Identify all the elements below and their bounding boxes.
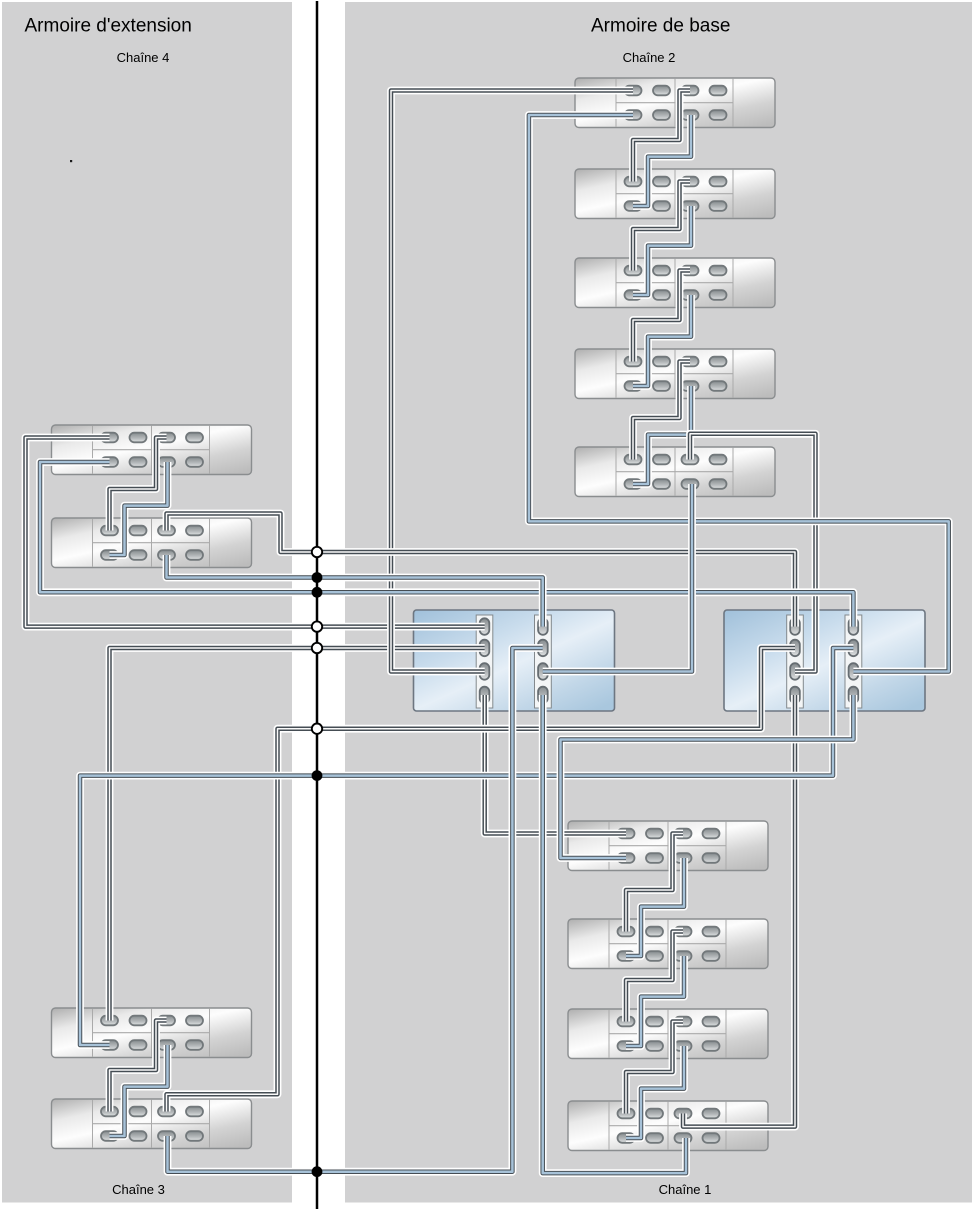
- wire dark link chain1 F-G top ports: [626, 932, 683, 1022]
- node crossing filled at y=577.5: [312, 572, 323, 583]
- svg-text:Chaîne 3: Chaîne 3: [112, 1182, 165, 1197]
- controller U2 (right): [724, 610, 925, 711]
- disk shelf chain1-H: [568, 1101, 768, 1151]
- wire U1 R3 to chain2-5 bottom p3: [543, 484, 692, 672]
- wire dark link chain1 G-H top ports: [626, 1022, 683, 1114]
- svg-text:Armoire de base: Armoire de base: [591, 16, 730, 37]
- disk shelf chain1-G: [568, 1009, 768, 1059]
- disk shelf chain1-E: [568, 821, 768, 871]
- wire dark link chain3 C-D top ports: [110, 1021, 167, 1112]
- controller U1 (left): [414, 610, 615, 711]
- disk shelf chain4-A: [52, 425, 252, 475]
- disk shelf chain4-B: [52, 518, 252, 568]
- left cabinet panel: Armoire d'extension: [2, 2, 292, 1203]
- wire dark link chain4 A-B top ports: [110, 438, 167, 531]
- wire chain4-A top p1 to U1 L1: [26, 438, 485, 627]
- node crossing filled at y=775.6: [312, 770, 323, 781]
- wire dark link chain2 1-2 top ports: [633, 91, 690, 182]
- wire light link chain2 4-5 bottom ports: [633, 386, 691, 484]
- wire U1 R2 to chain3-D bottom p3: [168, 648, 543, 1172]
- disk shelf chain3-C: [52, 1008, 252, 1058]
- wire dark link chain2 3-4 top ports: [633, 271, 690, 362]
- node crossing filled at y=1171.7: [312, 1166, 323, 1177]
- disk shelf chain3-D: [52, 1099, 252, 1149]
- svg-text:Chaîne 2: Chaîne 2: [623, 50, 676, 65]
- wire light link chain1 F-G bottom ports: [626, 956, 684, 1046]
- wire light link chain1 E-F bottom ports: [626, 858, 684, 956]
- stray dot mark: [70, 160, 72, 162]
- wire U2 L4 to chain1-H top p3: [683, 695, 795, 1127]
- node crossing open at y=728.7: [312, 724, 322, 734]
- disk shelf chain2-2: [575, 169, 775, 219]
- disk shelf chain2-5: [575, 447, 775, 497]
- wire light link chain1 G-H bottom ports: [626, 1046, 684, 1138]
- svg-text:Armoire d'extension: Armoire d'extension: [25, 16, 192, 37]
- right cabinet panel: Armoire de base: [345, 2, 972, 1203]
- disk shelf chain2-3: [575, 258, 775, 308]
- wire light link chain2 2-3 bottom ports: [633, 206, 691, 295]
- wire light link chain2 1-2 bottom ports: [633, 115, 691, 206]
- wire light link chain4 A-B bottom ports: [110, 462, 168, 555]
- node crossing open at y=552: [312, 547, 322, 557]
- wire chain2-1 bottom p1 to U2 R3: [529, 115, 949, 672]
- node crossing open at y=648: [312, 643, 322, 653]
- wire U1 R4 to chain1-H bottom p3: [543, 695, 686, 1173]
- wire U2 L3 to chain2-5 top p3: [690, 434, 816, 672]
- node crossing open at y=626.6: [312, 621, 322, 631]
- wire dark link chain2 4-5 top ports: [633, 362, 690, 460]
- wire chain4-B bottom p3 to U1 R1: [167, 555, 543, 627]
- svg-text:Chaîne 1: Chaîne 1: [659, 1182, 712, 1197]
- disk shelf chain2-4: [575, 349, 775, 399]
- node crossing filled at y=592.3: [312, 587, 323, 598]
- wire U2 R2 to chain3-C bottom p1: [80, 648, 853, 1045]
- wire chain3-C top p1 to U1 L2: [110, 648, 485, 1021]
- wire light link chain3 C-D bottom ports: [110, 1045, 168, 1136]
- disk shelf chain1-F: [568, 919, 768, 969]
- wire U2 R4 to chain1-E bottom p1: [561, 695, 854, 858]
- wire U2 L2 to chain3-D top p3: [167, 648, 796, 1112]
- wire dark link chain1 E-F top ports: [626, 834, 683, 932]
- cabinet boundary line: [316, 1, 319, 1209]
- wire light link chain2 3-4 bottom ports: [633, 295, 691, 386]
- wire chain4-A bottom p1 to U2 R1: [40, 462, 853, 627]
- wire chain4-B top p3 to U2 L1: [167, 514, 796, 627]
- svg-text:Chaîne 4: Chaîne 4: [117, 50, 170, 65]
- disk shelf chain2-1: [575, 78, 775, 128]
- wire dark link chain2 2-3 top ports: [633, 182, 690, 271]
- wire U1 L4 to chain1-E top p1: [485, 695, 626, 834]
- wire chain2-1 top p1 to U1 L3: [391, 91, 633, 672]
